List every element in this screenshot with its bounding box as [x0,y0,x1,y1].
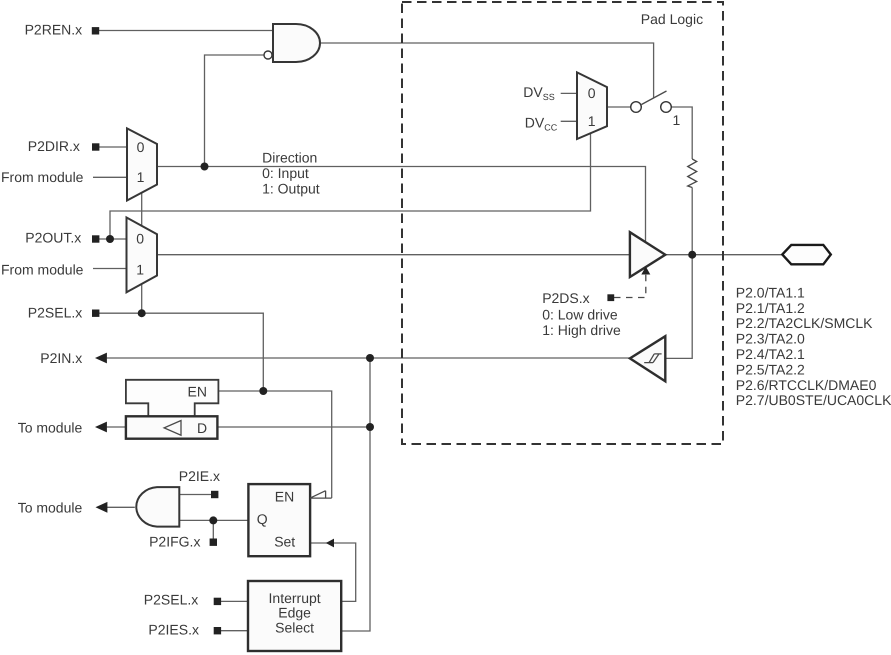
wire P2OUT.x to mux input 0 [99,238,127,240]
svg-text:P2.3/TA2.0: P2.3/TA2.0 [736,331,805,347]
inverter bubble on U1 input [264,51,272,59]
svg-text:Q: Q [257,511,268,527]
schmitt trigger U3 input buffer [630,336,665,381]
wire Q output to interrupt AND [179,519,248,521]
wire P2IN.x line from Schmitt trigger [107,357,630,359]
arrowhead Set input [326,539,334,548]
svg-text:P2OUT.x: P2OUT.x [25,229,81,245]
D latch box [126,416,217,438]
terminal square P2OUT.x [92,235,99,242]
Pad Logic dashed border [402,2,723,444]
hysteresis symbol [644,354,661,363]
svg-text:Pad Logic: Pad Logic [641,11,703,27]
svg-text:To module: To module [18,500,83,516]
wire D latch input line [217,426,370,428]
terminal square P2IES.x [214,627,221,634]
svg-text:Select: Select [275,619,314,635]
and-gate U1 P2REN enable [273,24,320,62]
svg-text:0: Input: 0: Input [262,165,309,181]
svg-text:0: 0 [137,139,145,155]
wire EN latch enable line to flip-flop clock [218,391,331,498]
edge trigger symbol on FF [310,491,332,498]
terminal square P2SEL.x lower [214,598,221,605]
wire DVss to mux [561,92,577,94]
svg-text:Direction: Direction [262,150,317,166]
svg-text:P2IE.x: P2IE.x [179,468,220,484]
wire P2SEL.x to EN line [99,313,263,391]
flip-flop P2IFG box [248,484,310,556]
switch S1 pullup enable [631,91,672,112]
arrowhead P2IN.x [95,353,107,364]
svg-text:P2.6/RTCCLK/DMAE0: P2.6/RTCCLK/DMAE0 [736,377,877,393]
svg-text:P2.4/TA2.1: P2.4/TA2.1 [736,346,805,362]
svg-text:P2IN.x: P2IN.x [40,350,82,366]
interrupt edge select box [248,581,341,651]
wire P2IN branch down to interrupt edge select [341,358,370,631]
wire switch to resistor [672,107,693,159]
svg-text:P2.2/TA2CLK/SMCLK: P2.2/TA2CLK/SMCLK [736,315,873,331]
svg-text:From module: From module [1,169,84,185]
wire P2SEL.x to interrupt edge select [221,600,248,602]
svg-text:P2IFG.x: P2IFG.x [149,533,200,549]
svg-text:P2.5/TA2.2: P2.5/TA2.2 [736,361,805,377]
wire DV mux output to switch [607,106,631,108]
terminal square P2IE.x [211,491,218,498]
junction EN line node [259,387,267,395]
junction P2IN node [366,354,374,362]
junction D line node [366,423,374,431]
resistor R pullup [688,159,697,188]
svg-text:P2IES.x: P2IES.x [148,622,199,638]
wire AND output to switch control [320,43,654,98]
pin name list [736,284,891,408]
wire Set input from interrupt edge select [310,543,356,601]
wire P2IFG.x tap [212,520,214,540]
wire P2OUT feedback to DV mux select [110,131,591,239]
wire P2OUT mux output to output buffer [157,254,630,256]
terminal square P2DIR.x [92,143,99,150]
svg-text:1: 1 [137,169,145,185]
wire P2SEL select vertical through muxes [141,192,143,313]
arrowhead To module lower [96,502,108,513]
wire From module to P2OUT mux input 1 [93,268,127,270]
D latch buffer triangle [164,421,181,436]
svg-text:EN: EN [275,489,294,505]
svg-text:D: D [197,420,207,436]
svg-text:Set: Set [274,534,295,550]
junction pad node [688,251,696,259]
svg-text:To module: To module [18,420,83,436]
wire DVcc to mux [561,120,577,122]
wire buffer output to pad [665,254,782,256]
svg-text:P2.7/UB0STE/UCA0CLK: P2.7/UB0STE/UCA0CLK [736,392,891,408]
junction Q P2IFG node [209,516,217,524]
arrowhead To module upper [95,422,107,433]
svg-text:1: 1 [136,262,144,278]
svg-text:P2REN.x: P2REN.x [25,21,83,37]
terminal square P2REN.x [92,27,99,34]
wire From module to P2DIR mux input 1 [93,176,127,178]
svg-text:Edge: Edge [278,605,311,621]
svg-text:0: 0 [588,85,596,101]
svg-text:0: 0 [136,231,144,247]
wire Direction line (P2DIR mux output to output buffer enable) [157,167,646,242]
svg-text:P2SEL.x: P2SEL.x [144,592,198,608]
svg-text:0: Low drive: 0: Low drive [542,306,618,322]
and-gate U4 interrupt (mirrored) [136,487,179,526]
EN latch box [126,380,218,417]
wire To module from interrupt AND [105,506,135,508]
svg-text:P2DIR.x: P2DIR.x [28,138,80,154]
output buffer U2 [630,232,665,277]
junction P2SEL select node [138,309,146,317]
mux M1 P2DIR [127,128,157,200]
junction Direction node [201,163,209,171]
svg-text:1: 1 [673,112,681,128]
wire resistor to pad node and Schmitt input [665,188,692,359]
svg-text:P2.1/TA1.2: P2.1/TA1.2 [736,300,805,316]
svg-text:From module: From module [1,261,84,277]
svg-text:1: High drive: 1: High drive [542,322,621,338]
pad hexagon P2 pin [782,245,831,264]
wire P2IES.x to interrupt edge select [221,630,248,632]
svg-text:P2SEL.x: P2SEL.x [28,304,82,320]
terminal square P2DS.x [607,294,614,301]
svg-text:EN: EN [188,384,207,400]
terminal square P2SEL.x [92,310,99,317]
svg-text:P2DS.x: P2DS.x [542,290,589,306]
terminal square P2IFG.x [210,539,217,546]
mux M3 DVss/DVcc [577,72,607,139]
wire P2DS.x dashed control [614,271,646,298]
wire P2DIR.x to mux [99,146,127,148]
wire To module from D latch [105,426,126,428]
junction P2OUT node [106,235,114,243]
wire P2IE.x input [179,494,212,496]
svg-text:1: 1 [588,113,596,129]
arrowhead P2DS into buffer [641,267,650,275]
svg-text:P2.0/TA1.1: P2.0/TA1.1 [736,284,805,300]
mux M2 P2OUT [127,218,158,293]
wire P2REN.x to AND gate [97,30,273,32]
svg-text:1: Output: 1: Output [262,181,320,197]
wire inverted AND input from Direction node [205,55,265,167]
